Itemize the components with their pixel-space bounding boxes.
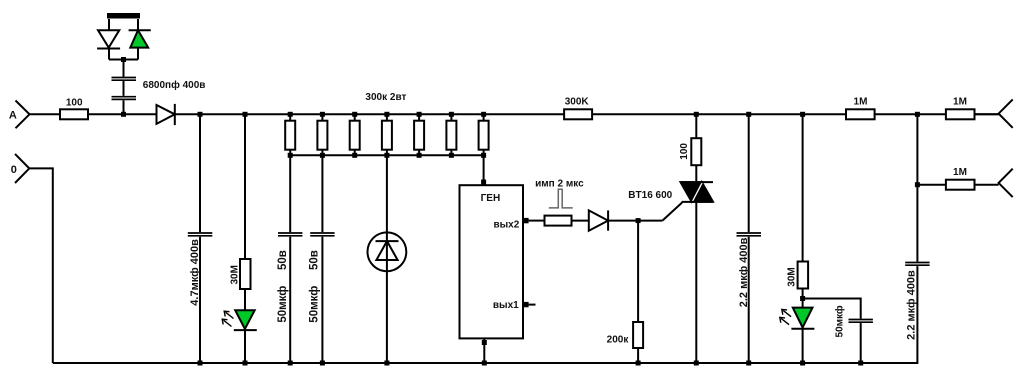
node main x322 xyxy=(320,112,325,117)
dinistor VS1 circle xyxy=(368,232,407,271)
resistor R2 30М body xyxy=(240,259,251,289)
dinistor VS1 internal wire xyxy=(386,232,388,271)
wire C3 column 50мкф xyxy=(289,155,291,363)
LED HL2 green (down) xyxy=(235,310,255,329)
output chevron 1 xyxy=(999,99,1013,127)
node at C1 bottom junction on main line xyxy=(121,112,126,117)
svg-text:50в: 50в xyxy=(308,250,320,270)
wire right LED branch xyxy=(137,19,139,60)
bank top stubs xyxy=(290,114,483,120)
terminal 0 chevron xyxy=(15,154,29,183)
diode VD3 cathode bar xyxy=(607,210,609,230)
wire R10 to VD3 xyxy=(572,220,589,222)
svg-text:A: A xyxy=(9,110,17,122)
wire VD3 to gate bend xyxy=(608,220,662,222)
wire main line VD2 to output xyxy=(175,113,999,115)
node main x696 xyxy=(694,112,699,117)
node main x355 xyxy=(352,112,357,117)
svg-text:50в: 50в xyxy=(277,250,289,270)
svg-text:0: 0 xyxy=(11,164,17,176)
node main x200 xyxy=(198,112,203,117)
svg-text:вых1: вых1 xyxy=(493,300,519,311)
capacitor C3 50мкф 50в plates xyxy=(278,233,302,236)
wire R14 column upper xyxy=(802,114,804,261)
wire GEN bottom to bus xyxy=(483,338,485,363)
dinistor VS1 diode triangle xyxy=(376,241,397,260)
svg-text:200к: 200к xyxy=(607,335,630,346)
wire left diode branch xyxy=(108,19,110,60)
wire bank to GEN top xyxy=(483,155,485,184)
node main x387 xyxy=(384,112,389,117)
resistor R12 100 body xyxy=(691,138,701,165)
node bus x484 xyxy=(482,361,487,366)
resistor R13 300K body xyxy=(564,109,592,119)
generator block U1 ГЕН xyxy=(460,185,524,338)
resistor R6 body xyxy=(382,121,392,150)
wire вых1 stub xyxy=(529,304,536,306)
node main x803 xyxy=(800,112,805,117)
resistor R7 body xyxy=(414,121,424,150)
svg-text:50мкф: 50мкф xyxy=(308,286,320,323)
resistor R10 body (pulse) xyxy=(545,216,572,226)
node main x484 xyxy=(481,112,486,117)
node main x917 xyxy=(915,112,920,117)
resistor R15 1M body xyxy=(846,109,875,119)
node bus x200 xyxy=(198,361,203,366)
capacitor C6 50мкф plates xyxy=(849,320,873,323)
resistor R14 30М body xyxy=(798,262,809,289)
resistor R4 body xyxy=(317,121,327,150)
svg-text:1M: 1M xyxy=(953,167,967,178)
svg-text:300к 2вт: 300к 2вт xyxy=(365,92,406,103)
LED HL3 green (down) xyxy=(793,308,813,328)
capacitor C2 4.7мкф 400в plates xyxy=(188,233,213,236)
wire node to C6 branch xyxy=(803,299,861,319)
wire dinistor column xyxy=(386,155,388,363)
resistor R8 body xyxy=(446,121,456,150)
svg-text:30М: 30М xyxy=(787,267,798,286)
diode VD3 xyxy=(589,210,608,230)
wire R14 to node xyxy=(802,289,804,308)
node GEN bottom xyxy=(482,340,487,345)
diode VD1 cathode bar xyxy=(97,48,120,50)
node x638 gate xyxy=(636,218,641,223)
LED HL2 arrows xyxy=(224,312,234,326)
LED HL1 cathode bar xyxy=(129,29,151,31)
node bus x322 xyxy=(320,361,325,366)
svg-text:вых2: вых2 xyxy=(493,220,519,231)
top thick bar of diode pair xyxy=(107,13,140,19)
triac diagonal separation xyxy=(692,182,702,202)
wire C6 to bus xyxy=(860,323,862,363)
node main x290 xyxy=(288,112,293,117)
svg-text:BT16 600: BT16 600 xyxy=(628,190,672,201)
bank bottom bus xyxy=(290,154,483,156)
triac top bar xyxy=(681,181,714,183)
wire C5 column 2.2мкф xyxy=(748,114,750,363)
wire 200k to bus xyxy=(637,348,639,363)
svg-text:50мкф: 50мкф xyxy=(277,286,289,323)
node bus x803 xyxy=(800,361,805,366)
resistor R9 body xyxy=(479,121,489,150)
wire C2 column xyxy=(199,114,201,363)
LED HL3 arrows xyxy=(781,310,791,324)
wire right column down xyxy=(53,114,918,363)
LED HL2 cathode bar xyxy=(234,329,257,331)
bank bus nodes xyxy=(288,153,486,158)
node bus x290 xyxy=(288,361,293,366)
diode VD1 (down) xyxy=(98,30,119,47)
node bus x245 xyxy=(243,361,248,366)
node branch2 x917 xyxy=(915,182,920,187)
svg-text:50мкф: 50мкф xyxy=(834,305,846,337)
triac bottom bar xyxy=(682,201,714,203)
capacitor C7 2.2мкф 400в plates xyxy=(905,263,929,266)
svg-text:100: 100 xyxy=(66,98,83,109)
wire R2 column upper xyxy=(244,114,246,259)
diode VD2 on main line xyxy=(157,105,175,124)
svg-text:ГЕН: ГЕН xyxy=(481,193,501,204)
pin вых2 square xyxy=(523,218,528,223)
wire R16 to out1 xyxy=(975,113,999,115)
resistor R5 body xyxy=(350,121,360,150)
wire R17 to out2 xyxy=(975,184,999,186)
node bus x387 xyxy=(384,361,389,366)
resistor R17 1M body xyxy=(946,180,975,190)
wire branch2 to R17 xyxy=(917,184,946,186)
wire HL3 to bus xyxy=(802,329,804,363)
wire вых2 to R10 xyxy=(529,220,545,222)
svg-text:4.7мкф 400в: 4.7мкф 400в xyxy=(189,239,201,306)
wire A to R1 xyxy=(30,113,61,115)
diode VD2 cathode bar xyxy=(174,104,176,125)
LED HL3 cathode bar xyxy=(791,328,814,330)
svg-text:30М: 30М xyxy=(230,265,241,284)
wire gate diagonal to triac xyxy=(662,203,682,221)
wire HL2 to bus xyxy=(244,330,246,363)
svg-text:1M: 1M xyxy=(953,96,967,107)
resistor R11 200к body xyxy=(633,322,643,348)
capacitor C4 50мкф 50в plates xyxy=(310,233,334,236)
resistor R1 100 body xyxy=(60,109,88,119)
bank bottom stubs xyxy=(290,150,483,156)
svg-text:300K: 300K xyxy=(565,96,590,107)
node bus x696 xyxy=(694,361,699,366)
svg-text:имп 2 мкс: имп 2 мкс xyxy=(535,179,584,190)
node main x245 xyxy=(243,112,248,117)
LED HL1 green (up) xyxy=(130,30,148,47)
node bus x861 xyxy=(858,361,863,366)
wire bottom of diode pair xyxy=(109,59,138,61)
node main x749 xyxy=(746,112,751,117)
node at diode pair bottom junction xyxy=(121,57,126,62)
triac VS2 BT16 600 xyxy=(681,182,702,202)
node bus x638 xyxy=(636,361,641,366)
wire main to R12 xyxy=(695,114,697,138)
svg-text:6800пф 400в: 6800пф 400в xyxy=(143,79,206,91)
wire R2 to LED HL2 xyxy=(244,289,246,310)
node x803 y298 xyxy=(800,296,805,301)
wire R1 to diode VD2 xyxy=(88,113,157,115)
wire R11 column down to 200k and bus xyxy=(637,221,639,322)
resistor R16 1M body xyxy=(946,109,975,119)
terminal A chevron xyxy=(16,101,30,129)
resistor R3 body xyxy=(285,121,488,150)
svg-text:1M: 1M xyxy=(854,96,868,107)
svg-text:100: 100 xyxy=(679,143,690,160)
dinistor VS1 cathode bar xyxy=(376,240,399,242)
capacitor C1 6800пф plates (two series caps) xyxy=(112,78,137,100)
wire vertical C1 branch xyxy=(123,60,125,115)
wire C4 column 50мкф xyxy=(321,155,323,363)
node bus x749 xyxy=(746,361,751,366)
svg-text:2.2 мкф 400в: 2.2 мкф 400в xyxy=(738,237,750,307)
wire 0 to corner and down xyxy=(29,168,53,363)
node GEN top xyxy=(481,180,486,185)
svg-text:2.2 мкф 400в: 2.2 мкф 400в xyxy=(906,270,918,340)
node main x451 xyxy=(449,112,454,117)
output chevron 2 xyxy=(999,169,1013,197)
wire R12 to triac xyxy=(695,165,697,182)
node main x419 xyxy=(417,112,422,117)
pulse waveform glyph xyxy=(549,189,573,208)
capacitor C5 2.2мкф 400в plates xyxy=(737,233,762,236)
pin вых1 square xyxy=(523,302,528,307)
wire triac to bus xyxy=(695,202,697,363)
